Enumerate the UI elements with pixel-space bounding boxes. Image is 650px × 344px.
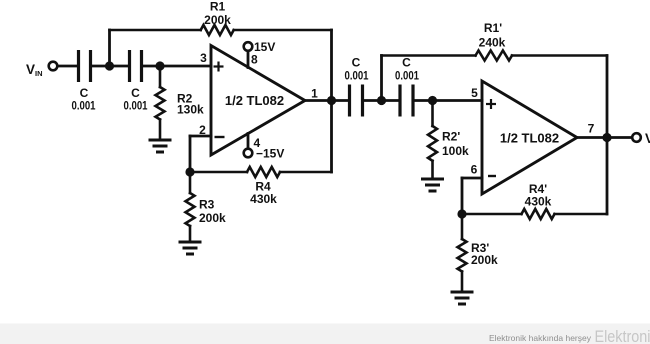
wire right vertical (R1'/output/R4') [606,56,609,215]
svg-text:1/2 TL082: 1/2 TL082 [500,131,559,146]
power +15V terminal (pin 8) [244,42,253,67]
label R1' [484,21,502,35]
footer band [0,324,650,344]
value 200k (R3') [471,253,498,267]
footer tagline text [489,333,592,343]
node C junction dot (pin2/R3/R4) [185,167,194,176]
label R2' [442,130,460,144]
pin 2 label [199,123,206,137]
label R4' [529,182,547,196]
svg-text:430k: 430k [250,192,277,206]
value 130k (R2) [177,103,204,117]
ground (R3) [179,242,202,254]
svg-text:0.001: 0.001 [72,99,96,113]
label -15V [256,147,284,161]
svg-text:8: 8 [251,53,258,67]
label VIN [26,62,43,78]
capacitor C (input, second) [130,50,142,82]
node E junction dot (caps/R1') [377,96,386,105]
pin 5 label [471,86,478,100]
resistor R4 (feedback, bottom) [190,167,332,177]
op-amp U2 1/2 TL082 [482,81,577,194]
wire node A up to R1 [108,30,111,66]
ground (R2) [149,140,172,152]
label C (first cap) [80,86,89,100]
pin 4 label [254,136,261,150]
svg-text:−15V: −15V [256,147,284,161]
power -15V terminal (pin 4) [244,134,253,158]
wire cap to pin 3 (through node B) [142,65,212,68]
value 430k (R4') [525,195,552,209]
label 1/2 TL082 (U1) [225,93,284,108]
svg-text:7: 7 [588,122,595,136]
node VOUT output terminal [632,133,641,142]
resistor R2 (to ground) [156,66,165,140]
node B junction dot (cap/R2/pin3) [155,61,164,70]
label R1 [210,0,226,14]
pin 1 label [311,87,318,101]
wire cap to pin 5 (through node F) [413,99,482,102]
svg-text:200k: 200k [204,13,231,27]
node G junction dot (pin6/R3'/R4') [457,209,466,218]
op-amp U1 1/2 TL082 [211,46,305,156]
node VIN input terminal [49,62,58,71]
node H stage2 output junction dot [602,133,611,142]
svg-text:0.001: 0.001 [395,69,419,83]
label R4 [255,180,271,194]
value 0.001 (stage2 first cap) [345,69,369,83]
pin 7 label [588,122,595,136]
value 100k (R2') [442,144,469,158]
label C (stage2 first cap) [352,56,361,70]
svg-text:0.001: 0.001 [345,69,369,83]
label R2 [177,92,193,106]
capacitor C (input, first) [79,50,91,82]
svg-text:0.001: 0.001 [124,99,148,113]
svg-text:R1ʹ: R1ʹ [484,21,502,35]
wire node E up to R1' [380,56,383,101]
pin 8 label [251,53,258,67]
plus sign (U2 noninverting) [486,99,496,109]
svg-text:240k: 240k [479,36,506,50]
svg-text:1/2 TL082: 1/2 TL082 [225,93,284,108]
value 200k (R3) [199,211,226,225]
wire C to C (through node A) [91,65,130,68]
label C (second cap) [131,86,140,100]
svg-text:1: 1 [311,87,318,101]
wire cap to cap (through node E) [363,99,401,102]
label V (output, clipped) [645,131,650,146]
svg-text:430k: 430k [525,195,552,209]
value 240k (R1') [479,36,506,50]
resistor R3' (to ground) [458,214,467,292]
resistor R2' (to ground) [428,101,437,180]
value 0.001 (first cap) [72,99,96,113]
node D stage1 output junction dot [327,96,336,105]
label R3' [471,241,489,255]
svg-text:100k: 100k [442,144,469,158]
resistor R1' (feedback, top) [382,51,608,61]
plus sign (U1 noninverting) [214,62,224,72]
svg-text:Elektroni: Elektroni [595,327,650,344]
label 15V [254,40,275,54]
value 200k (R1) [204,13,231,27]
resistor R3 (to ground) [186,172,195,242]
svg-text:V: V [645,131,650,146]
svg-text:R3: R3 [199,198,215,212]
wire pin 2 to node C [190,136,211,172]
svg-text:R1: R1 [210,0,226,14]
svg-text:IN: IN [35,69,43,78]
svg-text:6: 6 [471,163,478,177]
capacitor C (stage2, first) [350,85,363,117]
svg-text:R2ʹ: R2ʹ [442,130,460,144]
ground (R2') [421,179,444,191]
value 430k (R4) [250,192,277,206]
wire U1 output to stage 2 cap [305,99,350,102]
pin 3 label [200,51,207,65]
svg-text:4: 4 [254,136,261,150]
wire VIN to C [58,65,79,68]
label R3 [199,198,215,212]
label 1/2 TL082 (U2) [500,131,559,146]
resistor R4' (feedback, bottom) [462,209,607,219]
minus sign (U2 inverting) [488,175,496,177]
wire right vertical (R1/output/R4) [330,30,333,172]
pin 6 label [471,163,478,177]
svg-text:C: C [352,56,361,70]
label C (stage2 second cap) [402,56,411,70]
capacitor C (stage2, second) [400,85,413,117]
footer logo text [595,327,650,344]
value 0.001 (second cap) [124,99,148,113]
node F junction dot (cap/R2'/pin5) [428,96,437,105]
ground (R3') [451,292,474,304]
wire pin 6 to node G [462,178,482,214]
wire U2 output to terminal [577,136,632,139]
svg-text:3: 3 [200,51,207,65]
svg-text:Elektronik hakkında herşey: Elektronik hakkında herşey [489,333,592,343]
resistor R1 (feedback, top) [110,25,332,35]
svg-text:5: 5 [471,86,478,100]
svg-text:200k: 200k [471,253,498,267]
svg-text:200k: 200k [199,211,226,225]
node A junction dot (caps/R1) [105,61,114,70]
svg-text:V: V [26,62,35,77]
value 0.001 (stage2 second cap) [395,69,419,83]
svg-text:C: C [402,56,411,70]
svg-text:130k: 130k [177,103,204,117]
minus sign (U1 inverting) [215,136,225,138]
